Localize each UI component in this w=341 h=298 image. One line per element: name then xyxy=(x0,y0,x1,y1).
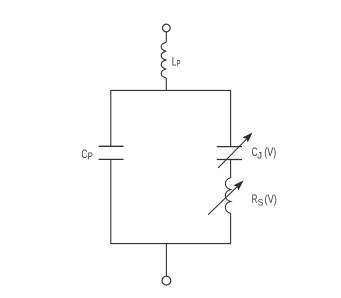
svg-text:S: S xyxy=(258,197,264,208)
svg-text:(V): (V) xyxy=(265,192,277,206)
svg-text:J: J xyxy=(257,150,262,161)
svg-text:P: P xyxy=(88,152,93,163)
svg-text:(V): (V) xyxy=(264,145,276,159)
svg-text:P: P xyxy=(177,58,181,68)
